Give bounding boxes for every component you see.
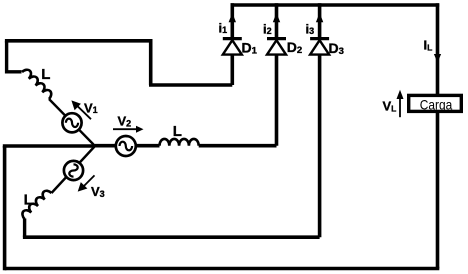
svg-text:D1: D1 (242, 39, 258, 56)
wire V1 to D1 horizontal (149, 83, 232, 87)
wire V3 to D3 horizontal (23, 235, 320, 239)
arrowhead i3 (316, 13, 323, 22)
svg-text:i2: i2 (263, 21, 272, 36)
svg-text:V1: V1 (84, 101, 98, 116)
arrow VL (397, 90, 404, 117)
wire top bus (231, 3, 440, 7)
svg-text:IL: IL (424, 38, 433, 53)
diode D1 branch wire upper (231, 3, 235, 38)
svg-text:V2: V2 (118, 113, 132, 128)
arrow V1 (71, 100, 91, 119)
svg-text:Carga: Carga (420, 96, 453, 112)
arrow V3 (78, 175, 95, 191)
source V2 (116, 136, 136, 156)
diode D1 (223, 39, 242, 55)
wire load to bottom (436, 112, 440, 269)
inductor L2 coil (160, 139, 199, 146)
diode D3 branch wire upper (318, 3, 322, 38)
wire L1 stub (5, 70, 22, 73)
source V3 (64, 161, 83, 180)
diode D3 (310, 39, 329, 55)
wire neutral horizontal to node (3, 144, 95, 148)
svg-text:L: L (24, 191, 33, 208)
diode D3 anode wire (318, 55, 322, 238)
svg-text:i3: i3 (306, 21, 315, 36)
wire V3 diagonal from node (52, 146, 96, 193)
node N center (94, 145, 96, 147)
diode D2 branch wire upper (275, 3, 279, 38)
wire L3 stub vertical (23, 219, 26, 238)
wire L2 to D2 (199, 144, 277, 148)
wire V1 mid vertical (149, 39, 153, 85)
wire V1 left vertical (5, 41, 8, 74)
load box Carga (409, 95, 462, 111)
inductor L3 coil (22, 191, 51, 219)
svg-text:D2: D2 (287, 39, 302, 56)
arrowhead IL on load wire (434, 54, 441, 63)
wire left vertical return (3, 146, 7, 270)
diode D2 (267, 39, 286, 55)
svg-text:V3: V3 (91, 184, 105, 199)
source V1 (62, 113, 81, 132)
svg-text:VL: VL (383, 99, 397, 114)
svg-text:L: L (173, 123, 182, 140)
arrowhead i1 (229, 13, 236, 22)
diode D2 anode wire (275, 55, 279, 146)
arrow V2 (113, 126, 144, 133)
svg-text:D3: D3 (329, 40, 344, 57)
wire V2 horizontal through source (95, 144, 160, 148)
wire V1 diagonal from node (49, 99, 95, 146)
svg-text:L: L (41, 66, 50, 83)
diode D1 anode wire (231, 55, 235, 85)
wire V1 top horizontal (5, 39, 151, 43)
wire right vertical to load (436, 3, 440, 95)
inductor L1 coil (22, 70, 51, 99)
arrowhead i2 (273, 13, 280, 22)
wire bottom return (5, 267, 440, 271)
svg-text:i1: i1 (219, 20, 228, 35)
